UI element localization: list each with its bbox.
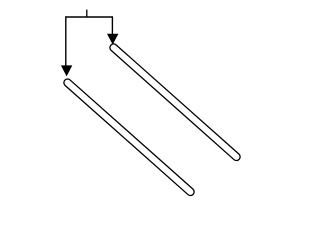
node T1 (top terminal stub)	[86, 10, 88, 17]
wire (left vertical drop)	[65, 16, 67, 66]
arrowhead right	[107, 34, 118, 45]
arrowhead left	[61, 65, 72, 76]
bar element upper-right (white core)	[114, 48, 237, 157]
wire (right vertical drop)	[111, 16, 113, 35]
bar element lower-left (outline)	[68, 83, 191, 192]
wire (horizontal bus)	[66, 16, 113, 18]
bar element upper-right (outline)	[114, 48, 237, 157]
bar element lower-left (white core)	[68, 83, 191, 192]
